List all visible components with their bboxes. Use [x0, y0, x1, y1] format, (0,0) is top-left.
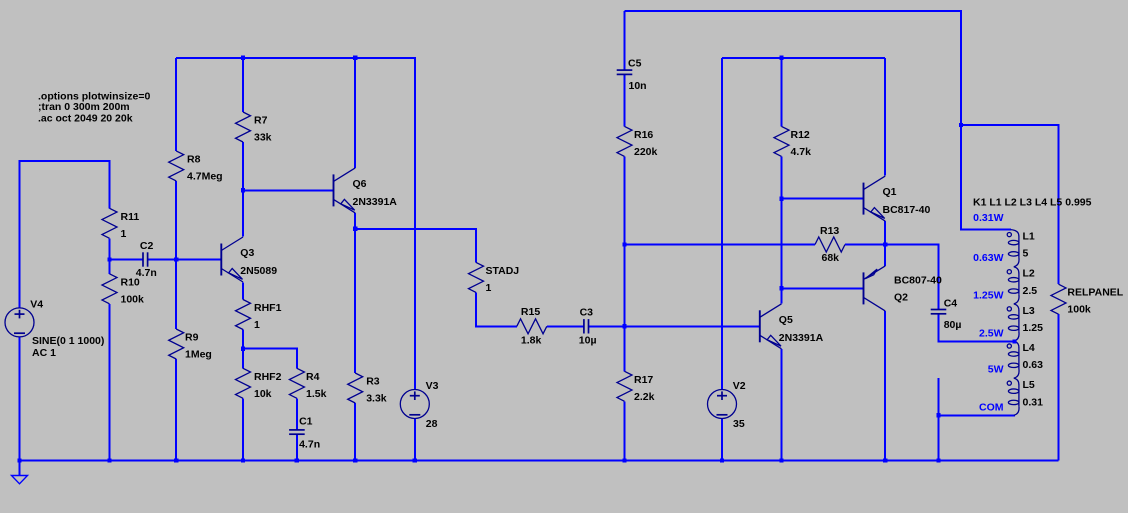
svg-text:C5: C5 [628, 58, 642, 70]
svg-text:1.5k: 1.5k [306, 388, 327, 400]
resistor STADJ [469, 262, 520, 294]
transistor Q3 [221, 237, 277, 282]
svg-text:4.7n: 4.7n [136, 267, 157, 279]
svg-text:C4: C4 [944, 298, 958, 310]
resistor R10 [102, 274, 144, 306]
junction C2 / R8 / R9 / Q3 base [174, 257, 178, 261]
resistor R4 [289, 368, 326, 400]
svg-text:Q2: Q2 [894, 292, 908, 304]
svg-text:L1: L1 [1023, 231, 1035, 243]
junction Q5 collector / Q2 base [779, 286, 783, 290]
resistor RELPANEL [1051, 284, 1124, 316]
svg-text:;tran 0 300m 200m: ;tran 0 300m 200m [38, 101, 130, 113]
junction ground rail / R10 [107, 458, 111, 462]
svg-text:1: 1 [254, 319, 260, 331]
svg-text:1Meg: 1Meg [185, 349, 212, 361]
svg-text:RHF2: RHF2 [254, 371, 282, 383]
svg-text:2N3391A: 2N3391A [779, 332, 824, 344]
svg-text:1.25W: 1.25W [973, 290, 1003, 302]
wire Q6 emitter to node [354, 213, 356, 229]
wire node to R4 top [243, 349, 297, 369]
transistor Q5 [760, 304, 824, 349]
svg-text:V3: V3 [426, 380, 439, 392]
wire Q6 emitter node to STADJ top [355, 229, 476, 263]
junction ground rail / C1 [295, 458, 299, 462]
wire V4 bottom to ground rail [19, 337, 21, 461]
wire R9 bottom to ground rail [175, 359, 177, 461]
svg-text:2.5: 2.5 [1023, 285, 1038, 297]
wire node to R9 top [175, 260, 177, 330]
svg-text:R16: R16 [634, 129, 653, 141]
wire R12 bottom to Q1 base node [781, 156, 783, 198]
wire Q2 base [782, 287, 864, 289]
junction ground rail / RHF2 [241, 458, 245, 462]
wire RHF1 bottom to node [242, 330, 244, 349]
wire topmost rail (C5 top across to relay panel feed) [625, 11, 962, 125]
inductor L4 [1007, 341, 1043, 378]
wire R13 node down to signal node [624, 245, 626, 327]
svg-text:80µ: 80µ [944, 319, 962, 331]
wire top rail 35V (V2 top to Q1 collector) [722, 57, 885, 59]
wire C1 bottom to ground rail [296, 434, 298, 460]
capacitor C3 [579, 307, 597, 347]
wire R10 bottom to ground rail [109, 304, 111, 461]
svg-text:0.63W: 0.63W [973, 252, 1003, 264]
junction COM stub [936, 413, 940, 417]
wire R13 left lead [625, 244, 816, 246]
svg-text:R13: R13 [820, 225, 839, 237]
wire C4 bottom to 2.5W tap [939, 314, 1015, 342]
junction ground rail / R17 [622, 458, 626, 462]
wire R17 bottom to ground rail [624, 401, 626, 460]
svg-text:R11: R11 [121, 211, 140, 223]
svg-text:0.31W: 0.31W [973, 212, 1003, 224]
wire 28V rail to R8 top [175, 58, 177, 151]
svg-text:V4: V4 [30, 298, 43, 310]
svg-text:C2: C2 [140, 240, 154, 252]
svg-text:100k: 100k [1067, 304, 1091, 316]
junction ground rail / V2 [720, 458, 724, 462]
svg-text:100k: 100k [121, 293, 145, 305]
resistor R16 [617, 126, 658, 157]
wire RELPANEL bottom to ground rail [1058, 314, 1060, 460]
svg-text:10n: 10n [629, 80, 647, 92]
svg-text:3.3k: 3.3k [366, 393, 387, 405]
svg-text:10µ: 10µ [579, 334, 597, 346]
wire C5 bottom to R16 top [624, 75, 626, 127]
svg-text:L4: L4 [1023, 342, 1035, 354]
wire R13 right lead to Q1/Q2 emitter node [845, 244, 885, 246]
svg-text:L5: L5 [1023, 379, 1035, 391]
junction 28V rail / R7 [241, 56, 245, 60]
wire Q3 base [176, 259, 221, 261]
inductor L1 [1007, 230, 1035, 267]
resistor R7 [236, 112, 272, 144]
inductor L5 [1007, 378, 1043, 415]
junction ground rail / V3 [413, 458, 417, 462]
wire R7 bottom to Q6 base node [242, 142, 244, 190]
wire signal node to R17 top [624, 326, 626, 371]
svg-text:L3: L3 [1023, 305, 1035, 317]
svg-text:220k: 220k [634, 146, 658, 158]
wire R3 bottom to ground rail [354, 403, 356, 461]
svg-text:Q1: Q1 [883, 186, 897, 198]
svg-text:5: 5 [1023, 248, 1029, 260]
svg-text:COM: COM [979, 402, 1004, 414]
resistor R9 [169, 329, 212, 361]
svg-text:1.25: 1.25 [1023, 322, 1044, 334]
wire node to Q3 collector [242, 190, 244, 236]
transistor Q6 [334, 168, 398, 213]
wire node to RHF2 top [242, 349, 244, 369]
wire Q5 emitter to ground rail [781, 349, 783, 461]
svg-text:4.7n: 4.7n [299, 439, 320, 451]
wire node to R3 top [354, 229, 356, 373]
svg-text:Q3: Q3 [240, 247, 254, 259]
resistor R8 [169, 151, 223, 183]
svg-text:BC807-40: BC807-40 [894, 275, 942, 287]
svg-text:C3: C3 [580, 307, 594, 319]
wire R16 bottom to R13 node [624, 156, 626, 244]
junction R12 / Q1 base [779, 196, 783, 200]
junction 2.5W tap [1012, 339, 1016, 343]
svg-text:SINE(0 1 1000): SINE(0 1 1000) [32, 335, 104, 347]
wire V2 bottom to ground rail [721, 418, 723, 461]
wire Q1 base node down to Q5 collector node [781, 199, 783, 289]
wire top rail 28V (R8 top to V3 top) [176, 58, 415, 390]
junction ground rail / R9 [174, 458, 178, 462]
svg-text:Q6: Q6 [353, 178, 367, 190]
wire Q1 collector to 35V rail [884, 58, 886, 176]
junction ground rail / V4 [17, 458, 21, 462]
svg-text:R8: R8 [187, 153, 201, 165]
wire Q1 emitter to node [884, 221, 886, 244]
svg-text:4.7k: 4.7k [791, 146, 812, 158]
wire R11 bottom to C2 node [109, 238, 111, 259]
wire relay feed to L1 top (0.31W) [961, 125, 1011, 230]
capacitor C4 [931, 298, 962, 332]
junction relay feed [959, 123, 963, 127]
svg-text:RELPANEL: RELPANEL [1067, 287, 1123, 299]
svg-text:28: 28 [426, 418, 438, 430]
voltage source V2 [708, 380, 746, 430]
wire topmost rail to C5 top [624, 11, 626, 70]
wire C3 to R16/R17 node [589, 325, 625, 327]
wire R4 bottom to C1 top [296, 398, 298, 430]
junction R16 / R13 [622, 242, 626, 246]
resistor R17 [617, 371, 655, 403]
svg-text:.ac oct 2049 20 20k: .ac oct 2049 20 20k [38, 113, 133, 125]
svg-text:R3: R3 [366, 376, 380, 388]
resistor R3 [348, 373, 387, 405]
svg-text:Q5: Q5 [779, 314, 793, 326]
svg-text:2N3391A: 2N3391A [353, 196, 398, 208]
transistor Q2 [864, 266, 943, 311]
svg-text:68k: 68k [822, 252, 840, 264]
wire V3 bottom to ground rail [414, 418, 416, 460]
junction 28V rail / Q6 collector [353, 56, 357, 60]
wire V4 top to R11 top [20, 161, 110, 308]
resistor R15 [517, 306, 547, 346]
wire Q6 base [243, 189, 334, 191]
wire COM stub [938, 378, 940, 461]
wire bottom ground rail [20, 460, 1059, 462]
svg-text:33k: 33k [254, 132, 272, 144]
svg-text:R9: R9 [185, 332, 199, 344]
svg-text:R17: R17 [634, 374, 653, 386]
junction Q6 emitter / R3 / STADJ [353, 227, 357, 231]
svg-text:1.8k: 1.8k [521, 334, 542, 346]
transistor Q1 [864, 176, 931, 221]
junction 35V rail / R12 [779, 56, 783, 60]
svg-text:5W: 5W [988, 363, 1004, 375]
junction ground rail / Q2 collector [883, 458, 887, 462]
voltage source V3 [400, 380, 438, 430]
wire V2 vertical from 35V rail [721, 58, 723, 389]
svg-text:1: 1 [121, 228, 127, 240]
svg-text:V2: V2 [733, 380, 746, 392]
wire C2 right lead to R8/R9 node [148, 259, 177, 261]
wire Q5 collector lead [781, 288, 783, 303]
svg-text:R15: R15 [521, 306, 540, 318]
capacitor C1 [289, 415, 320, 450]
wire Q3 emitter to RHF1 top [242, 283, 244, 300]
capacitor C5 [617, 58, 647, 92]
inductor L2 [1007, 267, 1037, 304]
junction RHF1 / RHF2 / R4 [241, 346, 245, 350]
svg-text:AC 1: AC 1 [32, 347, 56, 359]
junction Q1 emitter / Q2 emitter / R13 [883, 242, 887, 246]
svg-text:R7: R7 [254, 115, 268, 127]
wire Q1 base [782, 198, 864, 200]
svg-text:R12: R12 [791, 129, 810, 141]
svg-text:0.63: 0.63 [1023, 359, 1044, 371]
svg-text:4.7Meg: 4.7Meg [187, 170, 223, 182]
wire node to Q2 emitter [884, 245, 886, 266]
wire 28V rail to R7 top [242, 58, 244, 112]
wire Q2 collector to ground rail [884, 311, 886, 461]
svg-text:BC817-40: BC817-40 [883, 204, 931, 216]
svg-text:2.5W: 2.5W [979, 327, 1004, 339]
svg-text:1: 1 [486, 282, 492, 294]
voltage source V4 [5, 298, 43, 337]
junction C2 / R11 / R10 [107, 257, 111, 261]
junction ground rail / R3 [353, 458, 357, 462]
svg-text:35: 35 [733, 418, 745, 430]
svg-text:10k: 10k [254, 388, 272, 400]
wire emitter node to C4 top [885, 245, 938, 310]
resistor RHF2 [236, 368, 282, 400]
svg-text:STADJ: STADJ [486, 265, 520, 277]
wire R15 to C3 [547, 325, 584, 327]
wire R8 bottom to node [175, 181, 177, 260]
wire ground stub [19, 461, 21, 476]
wire relay feed to RELPANEL top [961, 125, 1059, 284]
svg-text:2.2k: 2.2k [634, 391, 655, 403]
wire COM tap to L5 bottom [939, 414, 1016, 416]
svg-text:2N5089: 2N5089 [240, 265, 277, 277]
wire RHF2 bottom to ground rail [242, 398, 244, 460]
wire node to Q5 base [625, 325, 760, 327]
junction ground rail / Q5 emitter [779, 458, 783, 462]
junction C3 / R17 / Q5 base [622, 324, 626, 328]
svg-text:0.31: 0.31 [1023, 396, 1044, 408]
junction R7 / Q6 base / Q3 collector [241, 188, 245, 192]
svg-text:K1 L1 L2 L3 L4 L5 0.995: K1 L1 L2 L3 L4 L5 0.995 [973, 196, 1092, 208]
inductor L3 [1007, 304, 1043, 341]
wire C2 node to R10 top [109, 260, 111, 274]
ground symbol [12, 476, 28, 484]
junction ground rail / COM stub [936, 458, 940, 462]
svg-text:RHF1: RHF1 [254, 302, 282, 314]
resistor R11 [102, 208, 139, 240]
resistor R13 [815, 225, 845, 264]
resistor R12 [774, 126, 811, 157]
capacitor C2 [136, 240, 157, 279]
resistor RHF1 [236, 300, 282, 332]
svg-text:R4: R4 [306, 371, 320, 383]
wire C2 left lead [110, 259, 144, 261]
wire Q6 collector to 28V rail [354, 58, 356, 168]
svg-text:L2: L2 [1023, 268, 1035, 280]
wire STADJ bottom to R15 [476, 292, 517, 326]
wire 35V rail to R12 top [781, 58, 783, 127]
svg-text:C1: C1 [299, 415, 313, 427]
